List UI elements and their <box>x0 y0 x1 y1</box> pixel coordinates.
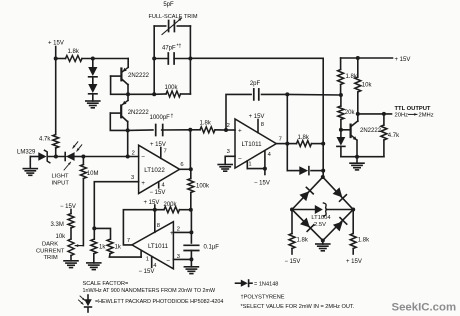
diode D4 1N4148 (bridge top-left) <box>299 187 313 201</box>
svg-text:2N2222: 2N2222 <box>360 128 382 134</box>
svg-text:−: − <box>238 156 242 163</box>
svg-text:20k: 20k <box>345 110 356 116</box>
wire diode branch <box>287 170 323 172</box>
node junction +15V/1.8k <box>54 57 58 61</box>
diode D8 1N4148 (baseline clamp) <box>337 130 346 157</box>
resistor 100k (rail) <box>188 169 210 209</box>
capacitor 2pF feedback <box>226 81 287 130</box>
resistor 10M (dark current) <box>80 157 98 179</box>
svg-text:CURRENT: CURRENT <box>36 248 65 254</box>
svg-text:8: 8 <box>157 223 160 229</box>
resistor 10k <box>355 58 373 114</box>
capacitor 0.1uF <box>184 245 219 260</box>
capacitor 5pF full-scale trim <box>148 2 197 35</box>
svg-text:+: + <box>141 180 145 187</box>
svg-text:LT1011: LT1011 <box>241 141 262 148</box>
svg-text:2: 2 <box>132 150 135 156</box>
svg-text:2N2222: 2N2222 <box>128 73 150 79</box>
svg-text:LIGHT: LIGHT <box>52 173 70 179</box>
svg-text:*SELECT VALUE FOR 2mW IN = 2MH: *SELECT VALUE FOR 2mW IN = 2MHz OUT. <box>241 304 355 310</box>
svg-text:+ 15V: + 15V <box>395 57 411 63</box>
node LT1011 output junction <box>285 142 289 146</box>
diode D7 1N4148 (bridge bottom-right) <box>333 218 347 232</box>
op-amp U3 LT1011 (lower comparator) <box>127 222 180 269</box>
wire bridge arm top-right <box>323 177 353 210</box>
svg-text:10M: 10M <box>87 171 99 177</box>
diode D2 (clamp stack bottom) <box>88 84 97 94</box>
svg-text:+: + <box>170 230 174 237</box>
svg-text:3: 3 <box>131 175 134 181</box>
svg-text:2MHz: 2MHz <box>419 112 434 118</box>
diode D5 1N4148 (bridge top-right) <box>333 187 347 201</box>
node +15V/10k junction <box>356 56 360 60</box>
svg-text:LT1004: LT1004 <box>311 215 331 221</box>
transistor Q2 2N2222 (lower) <box>110 94 149 130</box>
wire right rail down to bridge <box>322 58 324 177</box>
wire output rail up to 1000pF node <box>189 130 191 170</box>
node B at 47pF line <box>188 57 192 61</box>
node bridge left <box>290 208 294 212</box>
power -15V (LT1011 lower) <box>139 269 155 275</box>
svg-text:1.8k: 1.8k <box>297 238 309 244</box>
op-amp U1 LT1022 <box>131 145 184 193</box>
wire ramp line to 20k junction <box>287 93 341 96</box>
svg-text:=HEWLETT PACKARD PHOTODIODE HP: =HEWLETT PACKARD PHOTODIODE HP5082-4204 <box>95 299 223 305</box>
svg-text:†POLYSTYRENE: †POLYSTYRENE <box>241 295 285 301</box>
node pin2/rail junction <box>189 230 193 234</box>
legend photodiode symbol <box>79 295 92 312</box>
svg-text:= 1N4148: = 1N4148 <box>254 282 278 288</box>
op-amp U2 LT1011 (upper comparator) <box>227 119 282 168</box>
power +15V (LT1022 pin 7) <box>150 142 166 158</box>
resistor 1.8k (comparator input) <box>190 121 226 133</box>
label select value <box>241 304 355 310</box>
transistor Q1 2N2222 (upper) <box>111 67 150 94</box>
ground (clamp diode stack) <box>86 101 100 108</box>
wire LT1011 pins 1+4 <box>247 151 265 175</box>
ground (LM329) <box>23 169 37 176</box>
svg-text:+ 15V: + 15V <box>249 114 265 120</box>
svg-text:1.8k: 1.8k <box>68 49 80 55</box>
wire line to photodiode <box>49 156 66 158</box>
legend 1N4148 symbol <box>236 280 279 288</box>
svg-text:10k: 10k <box>56 234 67 240</box>
node junction diode stack top <box>91 57 95 61</box>
svg-text:4.7k: 4.7k <box>39 137 51 143</box>
svg-text:− 15V: − 15V <box>150 190 166 196</box>
resistor 1.8k (charge) <box>338 58 358 95</box>
wire clamp stack to ground <box>92 95 94 101</box>
node ramp junction <box>339 93 343 97</box>
svg-text:LT1011: LT1011 <box>148 243 169 250</box>
wire TTL output line <box>358 113 392 115</box>
svg-text:2: 2 <box>227 123 230 129</box>
wire Q2 base loop <box>110 113 127 130</box>
svg-text:TTL OUTPUT: TTL OUTPUT <box>395 106 431 112</box>
node LT1022 output junction <box>189 167 193 171</box>
node 20k/base junction <box>339 128 343 132</box>
node photodiode/10M junction <box>81 155 85 159</box>
svg-text:−: − <box>141 154 145 161</box>
svg-text:200k: 200k <box>164 202 178 208</box>
power -15V (trim chain) <box>60 204 76 214</box>
wire LT1011 output <box>276 143 287 145</box>
power +15V (output stage) <box>341 57 411 63</box>
wire pin 1 lead <box>140 251 142 258</box>
wire pin 8 stub <box>154 210 156 233</box>
node bridge bottom <box>321 239 325 243</box>
wire clamp line to diode junction <box>82 58 128 60</box>
svg-text:1k: 1k <box>99 245 106 251</box>
wire bridge arm bottom-left <box>292 210 323 241</box>
wire photodiode to 10M junction <box>75 156 84 158</box>
label scale factor <box>83 281 217 294</box>
svg-text:2N2222: 2N2222 <box>128 110 150 116</box>
node 1k junction <box>92 226 96 230</box>
svg-text:+: + <box>238 127 242 134</box>
resistor R 1.8k (top left) <box>66 49 83 62</box>
svg-text:100k: 100k <box>196 184 210 190</box>
power -15V (LT1011 upper) <box>254 180 270 186</box>
ground (LT1011 upper pin 3) <box>218 165 232 172</box>
resistor 1.8k (output series) <box>287 135 323 147</box>
wire 10M down to trim wiper <box>82 179 84 246</box>
wire emitter line to node A <box>128 93 154 95</box>
wire pin 4 lead <box>151 257 153 268</box>
label DARK CURRENT TRIM <box>36 242 65 261</box>
wire LT1022 pin3 left <box>94 182 138 229</box>
node output 1.8k right junction <box>321 142 325 146</box>
wire pin 2 lead <box>173 231 191 233</box>
svg-text:+ 15V: + 15V <box>346 259 362 265</box>
power +15V (bridge right) <box>346 259 362 265</box>
svg-text:2pF: 2pF <box>250 81 261 87</box>
diode D3 1N4148 (speed-up) <box>299 166 309 175</box>
wire Q1 collector drop <box>127 59 129 68</box>
wire +15V rail down (4.7k feed) <box>55 59 57 135</box>
svg-text:6: 6 <box>180 162 183 168</box>
zener U4 LT1004-2.5V reference <box>311 203 331 228</box>
svg-text:4: 4 <box>162 182 166 188</box>
wire diode stack stub <box>92 59 94 68</box>
power +15V (LT1011 lower pin 8) <box>144 200 160 210</box>
wire Q1 base loop <box>111 76 128 94</box>
node collector/10k junction <box>356 112 360 116</box>
wire emitter bottom line <box>341 156 384 158</box>
label LM329 <box>17 149 36 155</box>
svg-text:10k: 10k <box>362 83 373 89</box>
resistor 1.8k (bridge right leg) <box>350 210 370 255</box>
ground (trim pot) <box>64 261 78 268</box>
svg-text:8: 8 <box>261 122 264 128</box>
node TTL/4.7k junction <box>382 112 386 116</box>
wire pin2 lead <box>226 129 235 131</box>
svg-text:1.8k: 1.8k <box>200 121 212 127</box>
svg-text:4: 4 <box>153 263 157 269</box>
node 200k/rail junction <box>189 208 193 212</box>
svg-text:4: 4 <box>268 152 272 158</box>
label HP photodiode <box>95 299 223 305</box>
power -15V (bridge left) <box>285 259 301 265</box>
wire bridge arm top-left <box>292 177 323 210</box>
svg-text:*†: *† <box>177 44 182 50</box>
diode D1 (clamp stack top) <box>88 67 97 77</box>
potentiometer 10k dark current trim <box>56 234 84 256</box>
resistor 200k <box>164 202 191 213</box>
watermark SeekIC.com <box>392 301 457 313</box>
zener U5 LM329 reference <box>38 150 50 162</box>
node 4.7k/line junction <box>54 155 58 159</box>
ground (bridge bottom) <box>316 244 330 251</box>
wire between clamp diodes <box>92 78 94 84</box>
photodiode D9 HP5082-4204 <box>65 142 82 161</box>
node 2pF/output-rail junction <box>285 92 289 96</box>
wire rail to ground <box>190 259 192 266</box>
svg-text:†: † <box>171 114 174 120</box>
ground (0.1uF rail) <box>184 267 198 274</box>
label polystyrene <box>241 295 285 301</box>
node A at 100k line <box>152 92 156 96</box>
svg-text:INPUT: INPUT <box>52 180 70 186</box>
wire trim cap top line <box>154 25 190 27</box>
svg-text:FULL-SCALE TRIM: FULL-SCALE TRIM <box>148 14 197 20</box>
wire pot to ground <box>70 256 72 261</box>
wire summing line to LT1022 <box>83 156 138 158</box>
wire node A rail <box>153 26 155 94</box>
node pin8/+15V crossing <box>153 208 157 212</box>
wire bridge bottom to ground <box>322 241 324 245</box>
wire bridge middle <box>292 209 353 211</box>
svg-text:DARK: DARK <box>42 242 58 248</box>
wire LM329 to ground <box>29 157 31 169</box>
svg-text:1.8k: 1.8k <box>358 238 370 244</box>
capacitor 1000pF polystyrene <box>128 114 191 136</box>
power +15V (top left) <box>48 41 64 59</box>
transistor Q3 2N2222 (output) <box>341 114 382 157</box>
svg-text:+ 15V: + 15V <box>144 200 160 206</box>
svg-text:+ 15V: + 15V <box>48 41 64 47</box>
svg-text:− 15V: − 15V <box>254 180 270 186</box>
svg-text:5pF: 5pF <box>163 2 174 8</box>
svg-text:1: 1 <box>248 162 251 168</box>
wire LT1011 lower output loop <box>123 210 164 245</box>
wire bridge arm bottom-right <box>323 210 353 241</box>
wire rail pin2 to cap <box>190 210 192 243</box>
svg-text:− 15V: − 15V <box>139 269 155 275</box>
svg-text:7: 7 <box>279 137 282 143</box>
resistor 4.7k (pull-down) <box>381 114 400 157</box>
power -15V (LT1022 pin 4) <box>150 182 166 196</box>
node emitter/ground junction <box>355 155 359 159</box>
wire LT1011 pin3 to ground <box>225 156 235 164</box>
svg-text:4.7k: 4.7k <box>388 133 400 139</box>
wire +15V rail to clamp line <box>56 58 66 60</box>
node 1000pF/1.8k junction <box>188 128 192 132</box>
node diode/rail junction <box>321 169 325 173</box>
svg-text:1000pF: 1000pF <box>150 115 171 121</box>
wire output junction vertical <box>286 94 288 170</box>
resistor 100k (feedback) <box>154 85 190 97</box>
resistor 4.7k (LM329 bias) <box>39 135 59 157</box>
svg-text:SeekIC.com: SeekIC.com <box>392 301 457 313</box>
svg-text:100k: 100k <box>165 85 179 91</box>
node bridge top <box>321 175 325 179</box>
svg-text:47pF: 47pF <box>162 46 176 52</box>
capacitor 47pF <box>154 44 190 65</box>
node A at 47pF line <box>152 57 156 61</box>
svg-text:7: 7 <box>127 238 130 244</box>
svg-text:3: 3 <box>227 149 230 155</box>
wire node B rail <box>189 26 191 94</box>
svg-text:− 15V: − 15V <box>60 204 76 210</box>
node pin3/rail junction <box>189 257 193 261</box>
svg-text:1k: 1k <box>115 245 122 251</box>
svg-text:3.3M: 3.3M <box>51 222 64 228</box>
node pins1/4 junction <box>263 167 267 171</box>
svg-text:0.1µF: 0.1µF <box>204 245 220 251</box>
svg-text:−: − <box>166 258 170 265</box>
wire net B to right rail <box>190 57 323 59</box>
resistor 1k (feedback) <box>94 228 141 257</box>
svg-text:+ 15V: + 15V <box>150 142 166 148</box>
wire Q2 node down to summing line <box>127 130 129 156</box>
ground (1k) <box>87 263 101 270</box>
node Q1 emitter junction <box>126 92 130 96</box>
svg-text:2.5V: 2.5V <box>314 222 326 228</box>
svg-text:1.8k: 1.8k <box>298 135 310 141</box>
svg-text:SCALE FACTOR=: SCALE FACTOR= <box>83 281 129 287</box>
svg-text:− 15V: − 15V <box>285 259 301 265</box>
svg-text:1: 1 <box>146 257 149 263</box>
resistor 3.3M <box>51 214 75 240</box>
label TTL OUTPUT <box>395 106 434 119</box>
node summing/Q2 junction <box>126 155 130 159</box>
ground (output stage) <box>350 157 364 170</box>
node bridge right <box>351 208 355 212</box>
svg-text:1nW/Hz AT 900 NANOMETERS FROM: 1nW/Hz AT 900 NANOMETERS FROM 20nW TO 2m… <box>83 288 217 294</box>
diode D6 1N4148 (bridge bottom-left) <box>300 218 314 232</box>
power +15V (LT1011 upper pin 8) <box>249 114 265 133</box>
node Q2 collector junction <box>126 128 130 132</box>
label LIGHT INPUT <box>52 162 71 186</box>
svg-text:2: 2 <box>177 226 180 232</box>
wire LM329 line <box>30 156 38 158</box>
resistor 1k (to ground) <box>91 228 107 263</box>
svg-text:7: 7 <box>164 149 167 155</box>
wire pin 3 lead <box>173 258 191 260</box>
node LT1011 pin2 junction <box>224 128 228 132</box>
resistor 1.8k (bridge left leg) <box>289 210 309 255</box>
svg-text:TRIM: TRIM <box>44 255 58 261</box>
resistor 20k <box>338 95 356 130</box>
svg-text:LT1022: LT1022 <box>144 167 165 174</box>
wire LT1022 output <box>180 168 191 170</box>
svg-text:20Hz: 20Hz <box>395 112 409 118</box>
svg-text:LM329: LM329 <box>17 149 36 155</box>
